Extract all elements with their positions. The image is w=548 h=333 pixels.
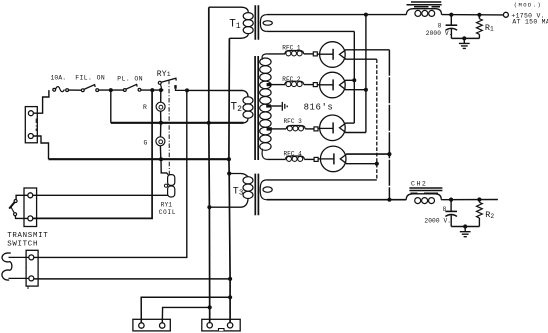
transformer T2 primary — [243, 91, 253, 123]
wire V4 filament bottom to bus C — [346, 163, 377, 165]
svg-text:RY1: RY1 — [157, 70, 171, 79]
wire bus: T1 primary left / plate line / T3 primary / TB2 left — [208, 7, 211, 322]
choke CH1 — [406, 9, 441, 17]
svg-text:10A.: 10A. — [51, 75, 67, 82]
lamp R — [156, 90, 165, 123]
relay RY1 linkage (dash-dot) — [168, 80, 170, 175]
plug P2 cap — [2, 253, 12, 280]
terminal strip TB2 — [202, 319, 240, 331]
wire P2 top to relay output bus — [34, 90, 187, 257]
wire T2 bottom lead to RFC4 — [267, 158, 285, 160]
wire T3 secondary top to fil bus C — [267, 179, 377, 181]
wire CH2 to lower output — [441, 199, 498, 201]
wire PL.ON to relay contact — [141, 89, 164, 91]
node TB1 fil bus — [208, 305, 212, 309]
node C1 top — [449, 13, 453, 17]
transformer T2 core — [255, 56, 258, 160]
ground (lower filter) — [460, 227, 471, 237]
choke RFC1 — [285, 51, 304, 56]
plug P1 (AC line input) — [25, 107, 37, 143]
transmit switch terminal board — [24, 188, 37, 227]
wire V3 filament bottom to bus B end — [345, 132, 366, 134]
wire P2 bottom to common bus — [34, 278, 230, 280]
wire TB1 right terminal to fil bus — [162, 307, 209, 322]
switch PL.ON — [123, 84, 141, 91]
svg-text:RFC 2: RFC 2 — [282, 76, 301, 83]
tap T2 secondary to RFC2 — [267, 83, 285, 86]
svg-text:RY1: RY1 — [161, 202, 173, 209]
capacitor C1 — [446, 15, 458, 39]
transmit switch toggle — [9, 195, 28, 218]
wire T1 secondary top to HV output line — [267, 14, 407, 16]
node lamp tap — [159, 88, 163, 92]
wire fil bus C — [376, 59, 378, 180]
svg-text:COIL: COIL — [159, 209, 176, 216]
node bus C / V4 — [375, 162, 379, 166]
wire CH1 to output — [442, 14, 504, 16]
choke CH2 core — [409, 188, 442, 193]
wire V3 filament top to bus A end — [345, 122, 354, 124]
wire T1 secondary bottom to fil bus A — [267, 30, 355, 32]
ground (HV filter) — [459, 38, 470, 48]
node T3 primary top — [227, 171, 231, 175]
svg-text:SWITCH: SWITCH — [7, 240, 38, 248]
tube V3 (816) — [314, 115, 346, 141]
node ground lower — [463, 224, 467, 228]
tube V4 (816) — [314, 146, 347, 172]
svg-text:RFC 3: RFC 3 — [284, 118, 303, 125]
svg-text:2000 V.: 2000 V. — [424, 218, 451, 225]
resistor R2 — [477, 200, 483, 227]
node R1 top — [477, 13, 481, 17]
svg-text:PL. ON: PL. ON — [117, 76, 143, 83]
node bus D / V4 — [387, 152, 391, 156]
transformer T3 primary — [209, 174, 253, 208]
wire J1 down to plate line — [110, 90, 112, 123]
svg-text:RFC 1: RFC 1 — [282, 44, 301, 51]
wire common line — [49, 158, 229, 160]
wire fil bus B — [365, 15, 367, 133]
wire V4 filament top to bus D — [346, 153, 389, 155]
wire RFC1 to V1 plate cap — [304, 53, 314, 55]
choke RFC4 — [285, 156, 304, 161]
svg-text:816's: 816's — [304, 102, 334, 112]
tube V2 (816) — [313, 72, 346, 98]
wire bus: T1 primary right / common / T3 primary top / TB2 right — [229, 38, 230, 322]
node after relay — [185, 88, 189, 92]
node bus A / V2 — [352, 78, 356, 82]
svg-text:CH2: CH2 — [411, 180, 427, 187]
transformer T2 secondary — [260, 54, 271, 159]
node ground top-right — [462, 36, 466, 40]
wire V1 filament bottom to bus C — [345, 58, 376, 60]
svg-text:2000 V.: 2000 V. — [426, 30, 453, 37]
svg-text:G: G — [144, 140, 148, 147]
node C2 top — [449, 198, 453, 202]
svg-text:FIL. ON: FIL. ON — [75, 75, 105, 82]
svg-text:(MOD.): (MOD.) — [514, 2, 542, 9]
ground center tap — [282, 102, 287, 111]
wire V2 filament bottom to bus B — [345, 89, 366, 91]
relay RY1 contacts — [158, 78, 187, 90]
wire RFC3 to V3 plate cap — [305, 128, 314, 130]
node bus D bottom — [387, 198, 391, 202]
wire relay output to T2 primary — [187, 89, 243, 91]
node lamp R bottom — [159, 121, 163, 125]
node bus B / V2 — [364, 88, 368, 92]
choke RFC2 — [285, 81, 304, 86]
wire RFC4 to V4 plate cap — [304, 158, 314, 160]
transformer T1 core — [255, 5, 258, 40]
node J1 — [109, 88, 113, 92]
node R2 top — [477, 197, 481, 201]
wire T3 secondary bottom to choke CH2 — [267, 199, 407, 201]
svg-text:8: 8 — [443, 206, 447, 213]
svg-text:TRANSMIT: TRANSMIT — [7, 232, 48, 240]
transformer T3 secondary — [260, 180, 272, 200]
node fil bus B top — [364, 13, 368, 17]
node common line end — [227, 157, 231, 161]
wire V2 filament top to bus A — [345, 79, 354, 81]
node TB1 common bus — [228, 295, 232, 299]
wire RFC2 to V2 plate cap — [304, 84, 314, 86]
switch FIL.ON — [81, 85, 98, 92]
wire P1 top terminal to switch line — [33, 90, 49, 113]
wire P1 bottom terminal to common line — [33, 136, 48, 159]
wire fil bus D — [388, 50, 390, 200]
choke CH2 — [406, 194, 441, 204]
svg-text:8: 8 — [438, 23, 442, 30]
wire FIL.ON to PL.ON through junction J1 — [99, 89, 124, 91]
wire T2 top lead to RFC1 — [267, 53, 285, 55]
node P2 bottom / common bus — [228, 277, 232, 281]
choke RFC3 — [286, 126, 305, 131]
lamp G — [156, 123, 165, 159]
transformer T3 core — [255, 174, 258, 216]
node plate line / T1 primary — [207, 121, 211, 125]
tube V1 (816) — [313, 42, 346, 68]
node J2 — [150, 88, 154, 92]
wire P2 cap prong leads — [9, 257, 29, 278]
wire transmit switch top to RY1 coil bottom — [33, 194, 168, 196]
wire plate line (heavy) — [111, 122, 244, 124]
wire TB1 left terminal to common bus — [141, 297, 230, 323]
node T3 primary bottom — [207, 205, 211, 209]
svg-text:RFC 4: RFC 4 — [284, 151, 303, 158]
choke CH1 core — [407, 2, 442, 7]
wire C2/R2 bottom rail — [451, 226, 479, 228]
transformer T1 primary — [209, 7, 253, 38]
wire V1 filament top to bus D — [345, 49, 389, 51]
svg-text:R: R — [143, 104, 147, 111]
capacitor C2 — [445, 200, 457, 227]
plug P2 (keying/aux outlet) — [26, 250, 38, 289]
relay RY1 coil — [161, 159, 175, 197]
fuse 10A — [53, 87, 69, 92]
resistor R1 — [477, 15, 483, 39]
tap T2 secondary to RFC3 — [267, 127, 287, 130]
svg-text:AT 150 MA.: AT 150 MA. — [512, 19, 548, 26]
output terminal +1750V — [503, 12, 508, 17]
wire fil bus A — [353, 31, 355, 123]
wire fuse to FIL.ON — [69, 89, 82, 91]
wire C1/R1 bottom rail — [451, 37, 479, 39]
wire transmit switch bottom to J2 — [33, 90, 152, 218]
node lamp G bottom — [159, 157, 163, 161]
transformer T1 secondary — [260, 15, 272, 32]
terminal strip TB1 — [133, 319, 170, 331]
tap T2 secondary center tap — [266, 104, 281, 107]
